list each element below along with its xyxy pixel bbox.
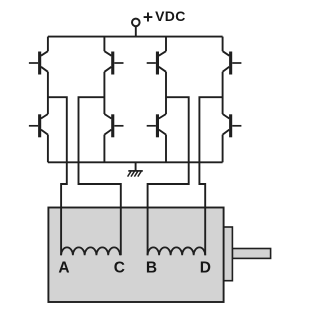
wire: leg column 1 emitter drop to ground rail <box>47 135 49 163</box>
wire: ground rail <box>48 161 223 163</box>
svg-text:+: + <box>143 7 153 27</box>
wire: leg column 1 midpoint segment <box>47 72 49 114</box>
transistor Q5 <box>29 114 48 137</box>
transistor Q4 <box>223 51 242 74</box>
wire: bridge leg 1 midpoint to motor terminal A <box>48 97 67 255</box>
stepper motor end cap flange <box>224 227 233 281</box>
ground <box>128 171 143 177</box>
wire: leg column 3 midpoint segment <box>165 72 167 114</box>
svg-text:A: A <box>58 259 69 276</box>
wire: ground stem <box>135 162 137 171</box>
wire: leg column 3 emitter drop to ground rail <box>165 135 167 163</box>
transistor Q8 <box>223 114 242 137</box>
stepper motor shaft <box>232 249 270 259</box>
wire: leg column 2 midpoint segment <box>103 72 105 114</box>
transistor Q1 <box>29 51 48 74</box>
wire: bridge leg 2 midpoint to motor terminal C <box>79 97 121 255</box>
stepper motor body <box>48 208 223 303</box>
svg-text:B: B <box>146 259 157 276</box>
wire: leg column 1 collector drop from +VDC rail <box>47 37 49 52</box>
wire: bridge leg 4 midpoint to motor terminal D <box>199 97 222 255</box>
+VDC supply terminal circle <box>132 19 140 27</box>
svg-text:C: C <box>114 259 125 276</box>
wire: +VDC top rail <box>48 36 223 38</box>
transistor Q6 <box>104 114 123 137</box>
transistor Q3 <box>147 51 166 74</box>
svg-text:D: D <box>200 259 211 276</box>
wire: leg column 2 collector drop from +VDC rail <box>103 37 105 52</box>
wire: leg column 2 emitter drop to ground rail <box>103 135 105 163</box>
wire: leg column 4 collector drop from +VDC rail <box>222 37 224 52</box>
transistor Q7 <box>147 114 166 137</box>
svg-text:VDC: VDC <box>155 8 186 24</box>
winding B-D (phase 2 coil) <box>148 247 206 255</box>
wire: leg column 3 collector drop from +VDC rail <box>165 37 167 52</box>
wire: leg column 4 midpoint segment <box>222 72 224 114</box>
wire: +VDC terminal stem <box>135 26 137 36</box>
winding A-C (phase 1 coil) <box>61 247 120 255</box>
transistor Q2 <box>104 51 123 74</box>
wire: leg column 4 emitter drop to ground rail <box>222 135 224 163</box>
wire: bridge leg 3 midpoint to motor terminal B <box>148 97 189 255</box>
